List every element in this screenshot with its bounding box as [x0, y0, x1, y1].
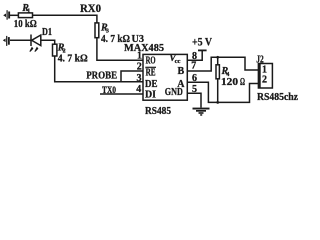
svg-text:1: 1 [137, 51, 142, 62]
svg-text:DE: DE [145, 79, 158, 90]
svg-text:4: 4 [136, 84, 141, 95]
svg-text:+5 V: +5 V [192, 35, 212, 49]
svg-text:RE: RE [146, 68, 156, 79]
svg-text:6: 6 [192, 73, 197, 84]
svg-text:4. 7 kΩ: 4. 7 kΩ [58, 53, 88, 65]
svg-text:RX0: RX0 [80, 3, 101, 15]
svg-text:2: 2 [137, 62, 142, 73]
svg-text:D1: D1 [42, 27, 52, 38]
svg-text:cc: cc [175, 58, 181, 65]
svg-text:10 kΩ: 10 kΩ [14, 18, 37, 30]
svg-text:B: B [178, 66, 185, 77]
svg-text:DI: DI [145, 89, 156, 100]
svg-text:5: 5 [192, 84, 197, 95]
svg-text:7: 7 [191, 61, 196, 72]
svg-text:2: 2 [262, 75, 267, 86]
svg-text:1: 1 [27, 9, 30, 15]
svg-text:PROBE: PROBE [86, 71, 117, 82]
svg-text:120: 120 [221, 76, 239, 88]
svg-text:Ω: Ω [240, 76, 245, 88]
svg-text:RO: RO [146, 55, 156, 66]
svg-text:RS485: RS485 [145, 105, 171, 117]
svg-text:3: 3 [137, 73, 142, 84]
svg-text:MAX485: MAX485 [124, 42, 164, 54]
svg-text:RS485chz: RS485chz [257, 91, 298, 103]
svg-text:GND: GND [165, 87, 183, 98]
svg-text:TX0: TX0 [102, 85, 116, 96]
